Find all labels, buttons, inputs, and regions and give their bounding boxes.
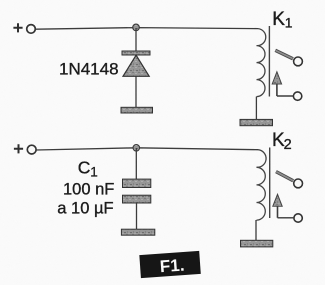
figure label box F1 — [139, 251, 200, 278]
diode D1 1N4148 cathode bar — [122, 51, 150, 55]
terminal circle (top input) — [27, 25, 36, 34]
terminal plus sign (top supply +) — [13, 23, 22, 32]
ground (relay K2) — [241, 240, 273, 247]
relay K2 contact circle lower — [294, 214, 302, 222]
wire junction down to diode cathode — [135, 28, 137, 52]
wire junction down to capacitor — [135, 148, 137, 179]
wire diode anode down to ground — [135, 76, 137, 107]
ground (capacitor branch) — [121, 229, 154, 235]
node junction (top wire to diode) — [133, 24, 140, 31]
terminal circle (bottom input) — [27, 145, 36, 154]
wire K2 common contact L — [278, 217, 294, 219]
relay K2 contact circle upper — [294, 179, 303, 188]
wire bottom horizontal (terminal to relay K2 coil) — [36, 148, 258, 150]
wire top horizontal (terminal to relay K1 coil) — [36, 28, 258, 30]
relay K1 core bar — [268, 26, 270, 97]
wire K1 common contact L — [277, 95, 293, 97]
wire K2 coil bottom to ground — [255, 220, 257, 241]
capacitor C1 top plate — [123, 179, 151, 187]
ground (diode branch) — [121, 107, 153, 113]
diode D1 triangle (anode) — [123, 55, 149, 76]
relay K2 actuator arrow — [273, 194, 282, 206]
ground (relay K1) — [240, 119, 273, 125]
relay K2 coil — [257, 150, 267, 220]
relay K1 switch arm — [275, 50, 293, 59]
relay K2 switch arm — [276, 172, 293, 181]
capacitor C1 bottom plate — [123, 195, 151, 203]
terminal plus sign (bottom supply +) — [14, 144, 23, 153]
relay K2 core bar — [269, 148, 271, 219]
wire capacitor to ground — [136, 203, 138, 230]
relay K1 contact circle lower — [293, 92, 301, 100]
relay K1 actuator arrow — [272, 72, 281, 84]
relay K1 coil — [257, 29, 266, 97]
relay K1 contact circle upper — [294, 57, 303, 66]
wire K1 coil bottom to ground — [255, 97, 257, 120]
node junction (bottom wire to capacitor) — [133, 145, 140, 152]
